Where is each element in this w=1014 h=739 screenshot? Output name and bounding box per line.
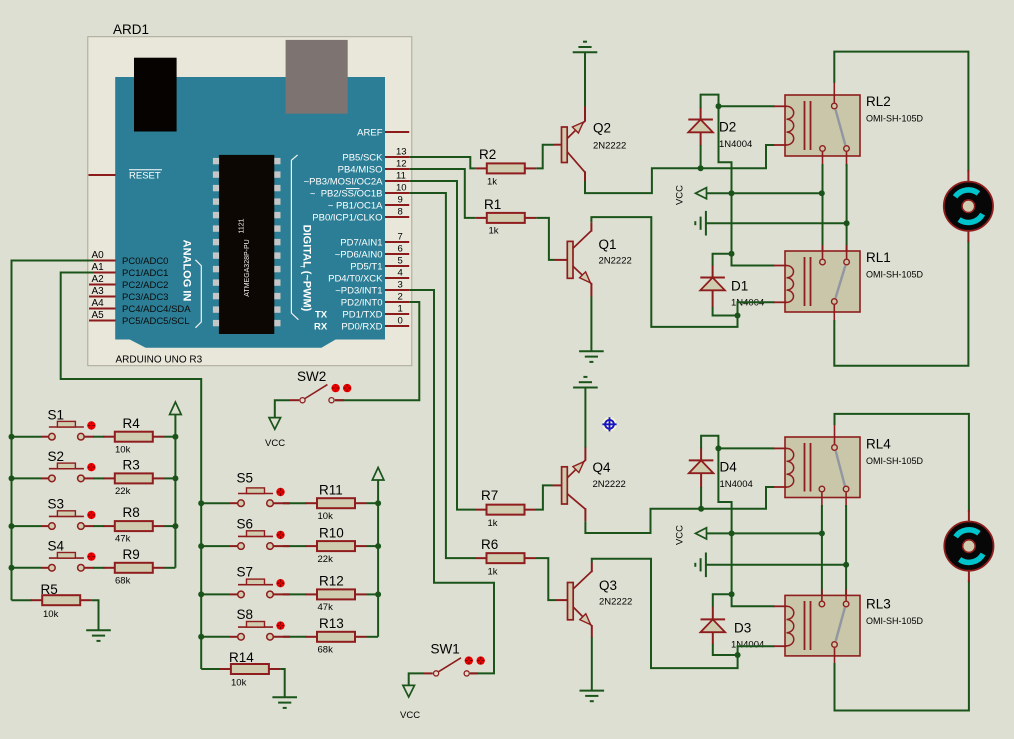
resistor R6 <box>475 553 536 563</box>
VCC arrow (SW1) <box>403 685 415 697</box>
overline on SS of PB2 <box>346 188 360 190</box>
wire left bus to R14 <box>201 668 220 670</box>
wire RL2 coil+ to VCC bus jog <box>719 106 732 193</box>
svg-text:R10: R10 <box>319 526 344 541</box>
wire R5 to ground <box>92 600 99 630</box>
svg-text:PD2/INT0: PD2/INT0 <box>341 297 383 308</box>
wire RL4 right contact down to RL3 <box>845 505 847 601</box>
relay RL3 (mirrored) <box>774 589 924 665</box>
wire left bus to R5 <box>12 599 32 601</box>
wire RL3 coil- <box>738 646 775 655</box>
svg-text:Q4: Q4 <box>593 460 612 475</box>
junction dots S1 group <box>9 434 15 440</box>
svg-text:A5: A5 <box>92 310 105 321</box>
wire Q1 collector net <box>591 217 737 327</box>
Arduino left pin labels PC0..PC5 <box>122 256 191 327</box>
IC pads left <box>213 158 281 334</box>
switch S4 <box>41 539 96 572</box>
resistor R3 <box>103 473 164 483</box>
svg-text:SW1: SW1 <box>431 642 460 657</box>
wire Q1 emitter to ground <box>590 297 592 352</box>
svg-text:10k: 10k <box>115 445 131 456</box>
IC ATMEGA328 body <box>219 155 274 334</box>
wire pin13 to R2 <box>409 157 475 168</box>
wire S5 group right bus <box>377 480 379 637</box>
wire pin10 to R6 <box>409 193 475 558</box>
transistor Q3 <box>556 563 632 638</box>
wire S1 group right bus <box>174 415 176 568</box>
ground symbol (sideways, bottom section) <box>695 553 706 578</box>
ground (R14) <box>272 697 297 708</box>
wire R14 to ground <box>280 669 284 697</box>
svg-text:OMI-SH-105D: OMI-SH-105D <box>866 456 924 466</box>
svg-text:1k: 1k <box>488 567 498 578</box>
svg-text:8: 8 <box>398 207 403 218</box>
svg-text:RL4: RL4 <box>866 437 891 452</box>
svg-text:S7: S7 <box>237 565 254 580</box>
svg-text:RESET: RESET <box>129 171 161 182</box>
svg-text:DIGITAL (~PWM): DIGITAL (~PWM) <box>301 225 313 312</box>
svg-text:PC2/ADC2: PC2/ADC2 <box>122 280 168 291</box>
svg-text:OMI-SH-105D: OMI-SH-105D <box>866 616 924 626</box>
wire SW2 left to VCC <box>275 400 290 417</box>
svg-text:R6: R6 <box>481 537 498 552</box>
wire RL4 left contact down to RL3 <box>821 505 823 601</box>
svg-text:1k: 1k <box>488 518 498 529</box>
svg-text:AREF: AREF <box>357 127 383 138</box>
wire bus to RL1 coil+ <box>732 254 775 266</box>
junction dots S5 group <box>198 500 204 506</box>
resistor R9 <box>103 563 164 573</box>
junction dots (bottom section) <box>698 506 704 512</box>
WIRES-ARDUINO <box>12 157 495 673</box>
svg-text:TX: TX <box>315 309 328 320</box>
wire VCC bus down <box>731 193 733 254</box>
wire D2 cathode to RL2 coil+ <box>701 95 719 108</box>
svg-text:VCC: VCC <box>265 438 285 449</box>
resistor R12 <box>306 589 367 599</box>
svg-text:7: 7 <box>398 232 403 243</box>
svg-text:~PD6/AIN0: ~PD6/AIN0 <box>335 249 383 260</box>
svg-text:R2: R2 <box>479 147 496 162</box>
DIGITAL (~PWM) bracket <box>291 155 298 320</box>
resistor R8 <box>103 521 164 531</box>
ground (inverted) above Q4 <box>573 377 598 388</box>
wire Q2 collector net <box>585 145 775 193</box>
svg-text:R3: R3 <box>123 458 140 473</box>
svg-text:Q1: Q1 <box>599 237 617 252</box>
svg-text:47k: 47k <box>318 602 334 613</box>
TX RX bold <box>314 309 328 332</box>
svg-text:PB5/SCK: PB5/SCK <box>342 152 383 163</box>
wire R6 to Q3 base <box>536 558 556 600</box>
svg-text:A0: A0 <box>92 250 105 261</box>
switch S2 <box>41 449 96 482</box>
wire R2 to Q2 base <box>536 145 554 169</box>
wire pin2 to SW2 <box>335 302 419 400</box>
wire VCC row <box>707 192 822 194</box>
switch S1 <box>41 408 96 441</box>
wire Q2 emitter to ground <box>584 52 586 106</box>
resistor R2 <box>475 163 536 173</box>
svg-text:PD1/TXD: PD1/TXD <box>342 309 382 320</box>
svg-text:S4: S4 <box>48 539 65 554</box>
junction dots (top section) <box>698 165 704 171</box>
left pin stubs (RESET, A0..A5) <box>89 175 116 321</box>
svg-text:2N2222: 2N2222 <box>593 141 626 152</box>
svg-text:PB0/ICP1/CLKO: PB0/ICP1/CLKO <box>312 212 382 223</box>
svg-text:SW2: SW2 <box>297 369 326 384</box>
wire Q4 emitter to ground <box>584 388 586 448</box>
svg-text:10k: 10k <box>43 609 59 620</box>
svg-text:~PB3/MOSI/OC2A: ~PB3/MOSI/OC2A <box>304 176 384 187</box>
wire RL2 left contact down to RL1 <box>822 164 824 259</box>
svg-text:ARD1: ARD1 <box>113 22 149 37</box>
svg-text:2N2222: 2N2222 <box>599 597 632 608</box>
wire RL1 pivot down to motor1 bottom <box>834 240 968 366</box>
svg-text:~ PB1/OC1A: ~ PB1/OC1A <box>328 200 383 211</box>
wire RL2 coil+ stub <box>719 105 775 107</box>
svg-text:PD4/T0/XCK: PD4/T0/XCK <box>328 273 383 284</box>
svg-text:3: 3 <box>398 280 403 291</box>
wire RL4 coil+ stub <box>718 447 774 449</box>
svg-text:R8: R8 <box>123 505 140 520</box>
wire D4 cathode to RL4 coil+ <box>701 436 718 449</box>
svg-text:1121: 1121 <box>239 218 246 233</box>
svg-text:OMI-SH-105D: OMI-SH-105D <box>866 270 924 280</box>
svg-text:R9: R9 <box>123 547 140 562</box>
wire VCC row (bottom) <box>707 532 822 534</box>
wire Q3 emitter to ground <box>591 637 593 691</box>
power jack <box>134 58 177 132</box>
switch S5 <box>230 471 290 507</box>
svg-text:10: 10 <box>396 183 407 194</box>
ground below Q1 <box>579 351 604 362</box>
wire bus to D1 cathode <box>713 254 732 266</box>
resistor R14 <box>219 664 280 674</box>
wire A0 to S1 bus <box>12 261 94 437</box>
svg-text:22k: 22k <box>318 554 334 565</box>
svg-text:D3: D3 <box>734 621 751 636</box>
svg-text:ARDUINO UNO R3: ARDUINO UNO R3 <box>116 355 203 366</box>
svg-text:Q3: Q3 <box>599 578 617 593</box>
svg-text:~PD3/INT1: ~PD3/INT1 <box>335 285 382 296</box>
svg-text:10k: 10k <box>318 511 334 522</box>
wire bus to D3 cathode <box>713 594 732 607</box>
svg-text:2N2222: 2N2222 <box>599 256 632 267</box>
diode D3 <box>701 607 765 651</box>
wire D4 anode down to collector net <box>700 487 702 510</box>
VCC power arrow (bottom section) <box>696 528 707 539</box>
svg-text:PD0/RXD: PD0/RXD <box>341 321 382 332</box>
svg-text:VCC: VCC <box>675 185 686 205</box>
svg-text:S2: S2 <box>48 449 65 464</box>
switch S3 <box>41 497 96 530</box>
wire pin3 to SW1 <box>409 290 494 673</box>
Arduino board (teal PCB) <box>115 77 385 348</box>
svg-text:47k: 47k <box>115 534 131 545</box>
svg-text:PD5/T1: PD5/T1 <box>350 261 382 272</box>
resistor R10 <box>306 541 367 551</box>
wire D1 anode to collector net <box>713 307 738 316</box>
svg-text:PC1/ADC1: PC1/ADC1 <box>122 268 168 279</box>
wire ground row to relay contacts (bottom) <box>706 564 846 566</box>
VCC power arrow (S1 group) <box>170 402 182 415</box>
svg-text:Q2: Q2 <box>593 121 611 136</box>
svg-text:S3: S3 <box>48 497 65 512</box>
wire RL4 pivot up and over to motor2 <box>835 414 969 512</box>
Arduino right pin labels <box>304 127 384 332</box>
motor 2 <box>944 510 993 582</box>
svg-text:PC3/ADC3: PC3/ADC3 <box>122 292 168 303</box>
svg-text:R4: R4 <box>123 416 141 431</box>
svg-text:RL2: RL2 <box>866 94 891 109</box>
relay RL4 <box>774 424 924 507</box>
VCC power arrow (top section) <box>696 188 707 199</box>
svg-text:1k: 1k <box>487 177 497 188</box>
svg-text:12: 12 <box>396 159 407 170</box>
wire RL1 coil- <box>738 302 775 315</box>
wire S1 group left bus <box>11 437 13 601</box>
resistor R11 <box>306 498 367 508</box>
svg-text:5: 5 <box>398 256 403 267</box>
resistor R13 <box>306 632 367 642</box>
svg-text:R13: R13 <box>319 616 344 631</box>
svg-text:6: 6 <box>398 244 403 255</box>
wire R1 to Q1 base <box>536 218 554 260</box>
svg-text:R1: R1 <box>484 197 501 212</box>
svg-text:S5: S5 <box>237 471 254 486</box>
svg-text:1N4004: 1N4004 <box>731 640 764 651</box>
wire rows S1-S4 <box>12 437 176 568</box>
wire D3 anode to collector net <box>713 644 738 655</box>
transistor Q1 <box>555 222 632 296</box>
svg-text:RL1: RL1 <box>866 250 891 265</box>
svg-text:PD7/AIN1: PD7/AIN1 <box>340 237 382 248</box>
switch S8 <box>230 607 290 640</box>
svg-text:1k: 1k <box>489 226 499 237</box>
svg-text:0: 0 <box>398 316 403 327</box>
right pin stubs (AREF,13..0) <box>385 132 409 326</box>
svg-text:S8: S8 <box>237 607 254 622</box>
svg-text:A3: A3 <box>92 286 105 297</box>
USB connector <box>286 40 348 114</box>
svg-text:RX: RX <box>314 321 328 332</box>
VCC power arrow (S5 group) <box>372 468 384 481</box>
switch S7 <box>230 565 290 598</box>
svg-text:~ PB2/SS/OC1B: ~ PB2/SS/OC1B <box>310 188 383 199</box>
svg-text:ATMEGA328P-PU: ATMEGA328P-PU <box>244 239 251 296</box>
resistor R1 <box>475 213 536 223</box>
svg-text:PB4/MISO: PB4/MISO <box>338 164 383 175</box>
relay RL1 (mirrored) <box>774 245 924 322</box>
wire ground row to relay contacts <box>706 222 847 224</box>
wire R7 to Q4 base <box>536 485 553 509</box>
svg-text:10k: 10k <box>231 678 247 689</box>
switch SW2 <box>290 369 351 403</box>
ground below Q3 <box>580 691 605 702</box>
wire RL4 coil+ to VCC bus jog <box>718 448 731 533</box>
svg-text:13: 13 <box>396 147 407 158</box>
svg-text:PC5/ADC5/SCL: PC5/ADC5/SCL <box>122 316 190 327</box>
svg-text:68k: 68k <box>318 645 334 656</box>
pin numbers 13..0 <box>396 147 407 327</box>
svg-text:RL3: RL3 <box>866 597 891 612</box>
wire RL2 right contact down to RL1 <box>846 164 848 259</box>
diode D1 <box>700 265 764 308</box>
ground (inverted) above Q2 <box>573 42 598 53</box>
svg-text:D2: D2 <box>719 120 736 135</box>
svg-text:S6: S6 <box>237 517 254 532</box>
wire Q4 collector net <box>585 487 774 533</box>
svg-text:1: 1 <box>398 304 403 315</box>
wire RL2 pivot up and over to motor1 <box>834 52 968 172</box>
ANALOG IN bracket <box>195 260 201 328</box>
wire SW1 left to VCC <box>409 673 424 685</box>
svg-text:2: 2 <box>398 292 403 303</box>
svg-text:PC4/ADC4/SDA: PC4/ADC4/SDA <box>122 304 191 315</box>
svg-text:VCC: VCC <box>400 710 420 721</box>
svg-text:ANALOG IN: ANALOG IN <box>181 240 193 302</box>
svg-text:A2: A2 <box>92 274 105 285</box>
wire RL3 pivot down to motor2 bottom <box>835 580 969 711</box>
crosshair origin marker <box>602 417 616 431</box>
transistor Q2 <box>554 107 626 182</box>
wire S5 group left bus <box>200 503 202 669</box>
motor 1 <box>944 170 993 242</box>
ground (R5) <box>86 630 111 641</box>
svg-text:D4: D4 <box>720 460 738 475</box>
svg-text:2N2222: 2N2222 <box>593 479 626 490</box>
wire bus to RL3 coil+ <box>732 594 775 606</box>
switch SW1 <box>424 642 485 677</box>
svg-text:VCC: VCC <box>675 525 686 545</box>
wire pin11 to R7 <box>409 181 475 510</box>
svg-text:11: 11 <box>396 171 406 182</box>
VCC arrow (SW2) <box>269 418 281 430</box>
svg-text:R14: R14 <box>229 650 254 665</box>
wire A1 to S5 bus <box>61 273 202 504</box>
resistor R5 <box>31 595 92 605</box>
svg-text:PC0/ADC0: PC0/ADC0 <box>122 256 168 267</box>
IC text ATMEGA328P-PU <box>239 218 252 296</box>
wire pin12 to R1 <box>409 169 475 218</box>
resistor R7 <box>475 505 536 515</box>
diode D2 <box>688 107 752 150</box>
diode D4 <box>689 448 753 490</box>
svg-text:R12: R12 <box>319 574 344 589</box>
ground symbol (sideways, top section) <box>695 211 706 236</box>
wire D2 anode down to collector net <box>700 145 702 169</box>
svg-text:R11: R11 <box>319 483 343 498</box>
svg-text:S1: S1 <box>48 408 65 423</box>
wire VCC bus down (bottom) <box>731 533 733 594</box>
svg-text:9: 9 <box>398 195 403 206</box>
svg-text:68k: 68k <box>115 576 131 587</box>
wire rows S5-S8 <box>201 503 378 637</box>
svg-text:1N4004: 1N4004 <box>719 139 752 150</box>
Arduino ARD1 component box <box>88 37 412 366</box>
svg-text:A4: A4 <box>92 298 105 309</box>
svg-text:OMI-SH-105D: OMI-SH-105D <box>866 114 924 124</box>
transistor Q4 <box>553 447 626 521</box>
svg-text:22k: 22k <box>115 486 131 497</box>
svg-text:4: 4 <box>398 268 403 279</box>
wire Q3 collector net <box>592 559 738 668</box>
svg-text:R7: R7 <box>481 488 498 503</box>
svg-text:D1: D1 <box>731 279 748 294</box>
svg-text:R5: R5 <box>41 582 58 597</box>
node labels A0..A5 <box>92 250 105 321</box>
resistor R4 <box>103 432 164 442</box>
svg-text:1N4004: 1N4004 <box>720 479 753 490</box>
svg-text:A1: A1 <box>92 262 105 273</box>
switch S6 <box>230 517 290 550</box>
relay RL2 <box>774 83 924 166</box>
